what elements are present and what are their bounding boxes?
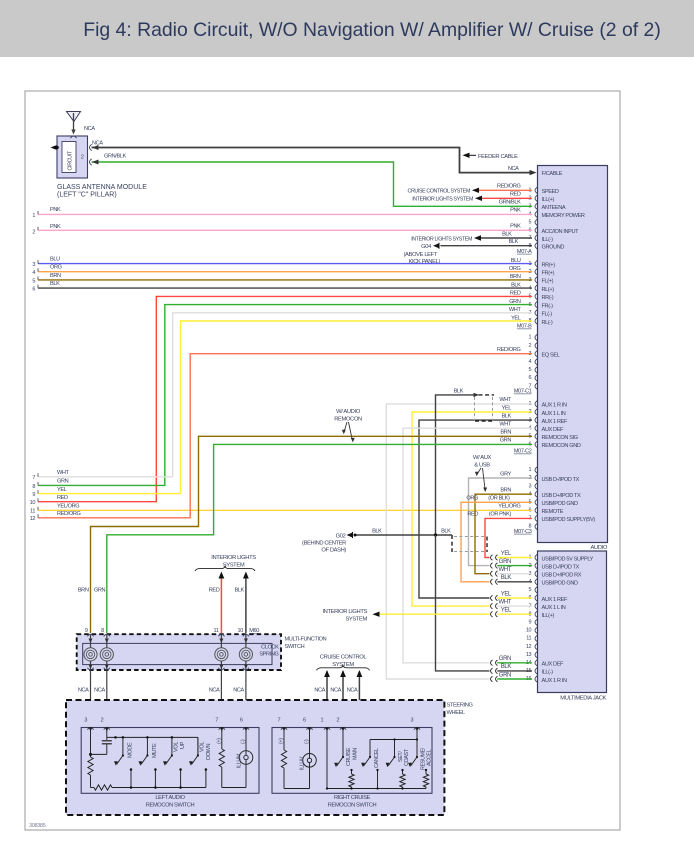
svg-text:6: 6	[240, 718, 243, 724]
junction grn branch	[105, 708, 108, 711]
wire GRN remocon gnd	[107, 444, 532, 633]
svg-text:8: 8	[101, 628, 104, 634]
connector pair pin15	[491, 668, 493, 674]
audio pin 1 RR(+)	[535, 261, 537, 267]
svg-text:REMOCON: REMOCON	[334, 417, 362, 423]
audio pin 4 AUX DEF	[535, 425, 537, 431]
steering wheel dashed box	[66, 700, 444, 815]
svg-text:BLK: BLK	[441, 528, 451, 534]
svg-text:Fig 4: Radio Circuit, W/O Navi: Fig 4: Radio Circuit, W/O Navigation W/ …	[83, 19, 661, 41]
svg-text:4: 4	[32, 270, 35, 276]
svg-text:CIRCUIT: CIRCUIT	[68, 150, 74, 170]
svg-text:WHT: WHT	[498, 599, 511, 605]
audio pin 7 USB/IPOD SUPPLY(5V)	[535, 515, 537, 521]
svg-text:1: 1	[321, 718, 324, 724]
wire YEL/ORG remote	[38, 509, 532, 511]
right box pin entry x=284	[281, 728, 287, 730]
svg-text:G02: G02	[336, 533, 346, 539]
svg-text:STEERING: STEERING	[447, 703, 473, 709]
svg-text:MUTE: MUTE	[152, 743, 158, 758]
svg-text:(OR PNK): (OR PNK)	[489, 512, 512, 518]
svg-text:PNK: PNK	[50, 224, 61, 230]
svg-text:(ABOVE LEFT: (ABOVE LEFT	[403, 252, 437, 258]
svg-text:3: 3	[84, 718, 87, 724]
svg-text:ILL(+): ILL(+)	[542, 613, 555, 619]
switch VOL DOWN	[197, 737, 199, 755]
switch RESUME/ACCEL	[416, 756, 418, 758]
audio pin 4 MEMORY POWER	[535, 211, 537, 217]
svg-text:BLK: BLK	[454, 389, 464, 395]
svg-text:13: 13	[526, 652, 532, 658]
svg-text:WHT: WHT	[57, 470, 70, 476]
svg-text:FEEDER CABLE: FEEDER CABLE	[478, 154, 518, 160]
svg-text:NCA: NCA	[314, 687, 325, 693]
wire BLK usb gnd jack side	[497, 581, 532, 583]
audio pin 1 (nc)	[535, 334, 537, 340]
wire BRN usb d+	[475, 494, 532, 574]
svg-text:BLK: BLK	[372, 528, 382, 534]
multimedia pin 2 USB D-/IPOD TX	[535, 563, 537, 569]
wire RED usb supply	[485, 518, 532, 557]
svg-text:1: 1	[32, 213, 35, 219]
multimedia pin 12 (nc)	[535, 644, 537, 650]
wire BLK shield drain	[436, 395, 475, 535]
left box bottom rail with resistor	[91, 787, 95, 789]
svg-text:GRN: GRN	[499, 656, 511, 662]
svg-text:GRN: GRN	[509, 299, 521, 305]
audio pin 1 SPEED	[535, 187, 537, 193]
svg-text:10: 10	[526, 628, 532, 634]
wire YEL usb supply jack side	[497, 557, 532, 559]
svg-text:VOL: VOL	[174, 742, 180, 752]
svg-text:SPRING: SPRING	[259, 652, 278, 658]
svg-text:GRN: GRN	[500, 438, 512, 444]
illum bulb left	[239, 751, 253, 765]
svg-text:1: 1	[529, 467, 532, 473]
svg-text:ILLUV: ILLUV	[300, 756, 306, 770]
svg-text:10: 10	[30, 500, 36, 506]
clock spring coil at x=245.9	[243, 634, 249, 636]
svg-text:MAIN: MAIN	[353, 748, 359, 760]
wire NCA cruise 3	[359, 672, 417, 724]
wire BLK ill- jack side	[497, 670, 532, 672]
svg-text:BRN: BRN	[500, 488, 511, 494]
connector pair pin8	[491, 611, 493, 617]
svg-text:REMOTE: REMOTE	[542, 509, 564, 515]
svg-text:FL(+): FL(+)	[542, 279, 554, 285]
svg-text:ILLUM: ILLUM	[236, 753, 242, 768]
svg-text:BLK: BLK	[502, 231, 512, 237]
multimedia pin 14 AUX DEF	[535, 660, 537, 666]
svg-text:FL(-): FL(-)	[542, 312, 553, 318]
audio pin 6 REMOCON GND	[535, 441, 537, 447]
left box top rail	[107, 736, 198, 738]
svg-text:NCA: NCA	[78, 687, 89, 693]
connector pair pin2	[491, 563, 493, 569]
svg-text:BLK: BLK	[234, 588, 244, 594]
svg-text:7: 7	[215, 718, 218, 724]
svg-text:ANTEENA: ANTEENA	[542, 205, 566, 211]
svg-text:3: 3	[411, 718, 414, 724]
svg-text:6: 6	[529, 375, 532, 381]
svg-text:M07-A: M07-A	[517, 249, 532, 255]
switch MUTE	[146, 737, 148, 755]
right box pin3 top rail	[416, 731, 418, 757]
svg-text:RED: RED	[510, 291, 521, 297]
svg-text:AUX 1 R IN: AUX 1 R IN	[542, 678, 567, 684]
left box pin entry x=106.8	[104, 728, 110, 730]
audio pin 1 (nc)	[535, 467, 537, 473]
switch MODE	[122, 737, 124, 755]
svg-text:GRN/BLK: GRN/BLK	[104, 154, 127, 160]
svg-text:PNK: PNK	[510, 208, 521, 214]
wire GRN aux def jack side	[497, 662, 532, 664]
wire RED/ORG speed	[477, 189, 532, 191]
audio pin 3 (nc)	[535, 483, 537, 489]
svg-text:USB/IPOD GND: USB/IPOD GND	[542, 581, 578, 587]
wire RED/ORG eq sel	[38, 354, 532, 518]
junction dot g02 drain	[434, 533, 437, 536]
svg-text:M07-B: M07-B	[517, 324, 532, 330]
svg-text:EQ SEL: EQ SEL	[542, 353, 560, 359]
svg-text:3: 3	[32, 262, 35, 268]
svg-text:AUX 1 L IN: AUX 1 L IN	[542, 605, 566, 611]
wire NCA branch to right pin6	[246, 707, 310, 724]
svg-text:MEMORY POWER: MEMORY POWER	[542, 213, 585, 219]
wire NCA to illum-	[245, 670, 247, 723]
svg-text:KICK PANEL): KICK PANEL)	[409, 259, 441, 265]
audio pin 3 FL(+)	[535, 277, 537, 283]
svg-text:NCA: NCA	[92, 141, 103, 147]
connector pair pin16	[491, 676, 493, 682]
left box pin3 column with resistor	[90, 731, 92, 757]
svg-text:MULTI-FUNCTION: MULTI-FUNCTION	[285, 637, 327, 643]
wire BLU speaker 3	[38, 263, 532, 265]
svg-text:CRUISE CONTROL: CRUISE CONTROL	[320, 655, 368, 661]
multimedia jack connector block	[538, 551, 607, 693]
audio pin 6 ACC/ION INPUT	[535, 227, 537, 233]
resume/accel contact resistor	[425, 770, 427, 774]
wire WHT usb d+ jack side	[497, 573, 532, 575]
svg-text:RED: RED	[209, 588, 220, 594]
right box pin entry x=327	[324, 728, 330, 730]
svg-text:LEFT AUDIO: LEFT AUDIO	[155, 795, 185, 801]
svg-text:BLK: BLK	[509, 239, 519, 245]
multimedia pin 8 ILL(+)	[535, 611, 537, 617]
svg-text:2: 2	[101, 718, 104, 724]
svg-text:WHT: WHT	[499, 422, 512, 428]
audio pin 5 (nc)	[535, 367, 537, 373]
svg-text:NCA: NCA	[94, 687, 105, 693]
multimedia pin 5 (nc)	[535, 587, 537, 593]
multimedia pin 3 USB D+/IPOD RX	[535, 571, 537, 577]
arrow into F/CABLE pin	[530, 170, 537, 175]
audio pin 2 (nc)	[535, 343, 537, 349]
wire BLK aux1 ref	[419, 420, 532, 598]
multimedia pin 4 USB/IPOD GND	[535, 579, 537, 585]
wire NCA feeder cable	[92, 148, 529, 173]
svg-text:W/ AUX: W/ AUX	[473, 455, 492, 461]
svg-text:YEL: YEL	[501, 551, 512, 557]
aux cable shield	[474, 397, 476, 421]
svg-text:(OR BLK): (OR BLK)	[488, 496, 510, 502]
switch contact posts left box	[130, 770, 132, 788]
svg-text:MULTIMEDIA JACK: MULTIMEDIA JACK	[560, 696, 606, 702]
wire WHT aux1 R in	[386, 404, 532, 679]
wire BLK g02 ground	[355, 534, 453, 536]
svg-text:10: 10	[238, 628, 244, 634]
svg-text:(LEFT "C" PILLAR): (LEFT "C" PILLAR)	[57, 192, 117, 199]
multimedia pin 6 AUX 1 REF	[535, 595, 537, 601]
svg-text:INTERIOR LIGHTS SYSTEM: INTERIOR LIGHTS SYSTEM	[411, 236, 472, 242]
audio unit connector block M07	[538, 166, 608, 543]
svg-text:USB D+/IPOD RX: USB D+/IPOD RX	[542, 573, 582, 579]
wire PNK memory power	[38, 213, 532, 215]
svg-text:INTERIOR LIGHTS: INTERIOR LIGHTS	[211, 555, 256, 561]
audio pin 5 RR(-)	[535, 293, 537, 299]
right box pin entry x=309.5	[306, 728, 312, 730]
svg-text:NCA: NCA	[508, 166, 519, 172]
svg-text:12: 12	[526, 644, 532, 650]
svg-text:AUX 1 REF: AUX 1 REF	[542, 597, 568, 603]
svg-text:AUX 1 R IN: AUX 1 R IN	[542, 403, 567, 409]
audio pin 8 (nc)	[535, 523, 537, 529]
svg-text:308385: 308385	[29, 823, 46, 829]
connector pair pin14	[491, 660, 493, 666]
svg-text:RED: RED	[467, 512, 478, 518]
audio pin 2 ILL(+)	[535, 195, 537, 201]
svg-text:3: 3	[529, 483, 532, 489]
left box pin entry x=221.8	[219, 728, 225, 730]
wire BLK illum return	[245, 574, 247, 634]
wire RED illum feed	[220, 574, 222, 634]
svg-text:NCA: NCA	[84, 126, 95, 132]
feeder cable annotation	[463, 153, 470, 158]
svg-text:7: 7	[278, 718, 281, 724]
svg-text:BLK: BLK	[501, 575, 512, 581]
multi-function switch dashed box	[77, 634, 281, 670]
right box bottom rail	[327, 788, 426, 790]
svg-text:BRN: BRN	[510, 274, 521, 280]
svg-text:RR(+): RR(+)	[542, 262, 556, 268]
arrow into module pin 2	[92, 160, 99, 165]
svg-text:USB D-/IPOD TX: USB D-/IPOD TX	[542, 477, 580, 483]
svg-text:RED: RED	[57, 495, 68, 501]
svg-text:CRUISE CONTROL SYSTEM: CRUISE CONTROL SYSTEM	[408, 189, 470, 195]
svg-text:YEL: YEL	[57, 487, 67, 493]
multimedia pin 16 AUX 1 R IN	[535, 676, 537, 682]
svg-text:RR(-): RR(-)	[542, 295, 554, 301]
svg-text:ILL(-): ILL(-)	[542, 670, 554, 676]
wire YEL ill+ jack side	[497, 613, 532, 615]
right cruise remocon switch box	[272, 728, 432, 794]
right box pin entry x=417	[414, 728, 420, 730]
svg-text:11: 11	[526, 636, 531, 642]
switch SET/COAST	[393, 756, 395, 758]
wire NCA branch to rail	[107, 709, 116, 737]
wire GRN/BLK antenna	[92, 162, 533, 206]
svg-text:CANCEL: CANCEL	[374, 748, 380, 768]
svg-text:YEL/ORG: YEL/ORG	[57, 504, 79, 510]
multimedia pin 7 AUX 1 L IN	[535, 603, 537, 609]
svg-text:BLK: BLK	[502, 413, 512, 419]
audio pin 8 GROUND	[535, 243, 537, 249]
glass antenna module U1	[57, 136, 88, 178]
svg-text:WHT: WHT	[498, 567, 511, 573]
svg-text:2: 2	[529, 343, 532, 349]
svg-text:11: 11	[213, 628, 218, 634]
svg-text:NCA: NCA	[347, 687, 358, 693]
svg-text:INTERIOR LIGHTS SYSTEM: INTERIOR LIGHTS SYSTEM	[412, 197, 473, 203]
svg-text:9: 9	[85, 628, 88, 634]
svg-text:GRN: GRN	[94, 588, 106, 594]
audio pin 5 REMOCON SIG	[535, 433, 537, 439]
svg-text:YEL: YEL	[501, 591, 512, 597]
diagram frame	[25, 91, 620, 830]
svg-text:USB/IPOD 5V SUPPLY: USB/IPOD 5V SUPPLY	[542, 556, 594, 562]
audio pin 3 ANTEENA	[535, 203, 537, 209]
cancel contact post	[377, 770, 379, 789]
svg-text:PNK: PNK	[510, 224, 521, 230]
svg-text:RED/ORG: RED/ORG	[497, 184, 520, 190]
svg-text:DOWN: DOWN	[206, 743, 212, 760]
illum bulb right	[303, 754, 317, 768]
module left connector	[51, 145, 57, 150]
clock spring coil at x=90.5	[87, 634, 93, 636]
svg-text:AUX 1 REF: AUX 1 REF	[542, 419, 568, 425]
switch CANCEL	[369, 756, 371, 758]
svg-text:BRN: BRN	[78, 588, 89, 594]
svg-text:M07-C3: M07-C3	[514, 529, 532, 535]
svg-text:USB D-/IPOD TX: USB D-/IPOD TX	[542, 564, 580, 570]
svg-text:RED: RED	[510, 192, 521, 198]
arrow into module pin 1	[92, 145, 99, 150]
svg-text:6: 6	[32, 287, 35, 293]
clock spring coil at x=106.8	[104, 634, 110, 636]
left box pin2 column with capacitor	[106, 731, 108, 740]
svg-text:USB/IPOD SUPPLY(5V): USB/IPOD SUPPLY(5V)	[542, 517, 596, 523]
connector pair pin6	[491, 595, 493, 601]
svg-text:8: 8	[32, 484, 35, 490]
svg-text:2: 2	[337, 718, 340, 724]
svg-text:OF DASH): OF DASH)	[321, 547, 346, 553]
svg-text:BLK: BLK	[511, 282, 521, 288]
svg-text:AUX DEF: AUX DEF	[542, 427, 565, 433]
wire GRN speaker return 8	[38, 305, 532, 486]
svg-text:9: 9	[529, 620, 532, 626]
svg-text:ORG: ORG	[466, 496, 478, 502]
switch VOL UP	[171, 737, 173, 755]
svg-text:GRN: GRN	[499, 559, 511, 565]
connector pair pin3	[491, 571, 493, 577]
svg-text:YEL: YEL	[502, 405, 512, 411]
svg-text:PNK: PNK	[50, 207, 61, 213]
svg-text:REMOCON SWITCH: REMOCON SWITCH	[328, 803, 377, 809]
audio pin 2 USB D-/IPOD TX	[535, 475, 537, 481]
audio pin 5 USB/IPOD GND	[535, 499, 537, 505]
svg-text:RESUME/: RESUME/	[420, 747, 426, 770]
clock spring inner box	[83, 643, 272, 664]
connector pair pin7	[491, 603, 493, 609]
wire GRN aux1 R in jack side	[497, 678, 532, 680]
svg-text:ORG: ORG	[509, 266, 521, 272]
audio pin 2 FR(+)	[535, 269, 537, 275]
svg-text:RL(-): RL(-)	[542, 320, 553, 326]
svg-text:CLOCK: CLOCK	[261, 645, 279, 651]
svg-text:M07-C1: M07-C1	[514, 389, 532, 395]
svg-text:REMOCON SWITCH: REMOCON SWITCH	[146, 803, 195, 809]
svg-text:W/ AUDIO: W/ AUDIO	[336, 409, 361, 415]
svg-text:WHT: WHT	[509, 307, 522, 313]
title bar	[0, 0, 694, 57]
svg-text:RED/ORG: RED/ORG	[57, 511, 80, 517]
svg-text:WHT: WHT	[499, 397, 512, 403]
wire ORG speaker 4	[38, 271, 532, 273]
svg-text:11: 11	[30, 509, 35, 515]
connector pair pin4	[491, 579, 493, 585]
wire BLK ground	[441, 245, 533, 247]
usb cable shield	[451, 535, 453, 552]
svg-text:USB/IPOD GND: USB/IPOD GND	[542, 501, 578, 507]
right box pin1 ground column	[326, 731, 328, 789]
svg-text:REMOCON SIG: REMOCON SIG	[542, 435, 578, 441]
multimedia pin 15 ILL(-)	[535, 668, 537, 674]
ground G04	[433, 243, 439, 248]
svg-text:NCA: NCA	[330, 687, 341, 693]
audio pin 4 USB D+/IPOD TX	[535, 491, 537, 497]
wire NCA to left pin2	[106, 670, 108, 723]
svg-text:GRN/BLK: GRN/BLK	[499, 200, 522, 206]
wire NCA to illum+	[220, 670, 222, 723]
audio pin 3 AUX 1 REF	[535, 417, 537, 423]
svg-text:7: 7	[32, 475, 35, 481]
svg-text:UP: UP	[180, 741, 186, 749]
svg-text:NCA: NCA	[233, 687, 244, 693]
svg-text:BLU: BLU	[511, 258, 521, 264]
wire GRN usb d- jack side	[497, 565, 532, 567]
multimedia pin 10 (nc)	[535, 627, 537, 633]
ground G02	[347, 533, 353, 538]
wire YEL speaker return 9	[38, 321, 532, 494]
wire RED ill+	[480, 197, 532, 199]
svg-text:G04: G04	[421, 244, 432, 250]
multimedia pin 13 (nc)	[535, 652, 537, 658]
svg-text:12: 12	[30, 516, 36, 522]
wire WHT speaker return 7	[38, 313, 532, 477]
audio pin 6 FR(-)	[535, 302, 537, 308]
audio pin 1 AUX 1 R IN	[535, 401, 537, 407]
wire BLK ill- multimedia	[436, 535, 490, 671]
audio pin 2 AUX 1 L IN	[535, 409, 537, 415]
wire BLK ill-	[481, 237, 533, 239]
svg-text:6: 6	[303, 718, 306, 724]
audio pin 4 RL(+)	[535, 285, 537, 291]
svg-text:F/CABLE: F/CABLE	[542, 171, 563, 177]
audio pin 7 FL(-)	[535, 310, 537, 316]
svg-text:GROUND: GROUND	[542, 245, 565, 251]
junction illum- branch	[244, 705, 247, 708]
antenna symbol	[67, 112, 81, 122]
wire RED speaker return 10	[38, 296, 532, 501]
wire GRY usb d-	[469, 478, 533, 566]
svg-text:USB D+/IPOD TX: USB D+/IPOD TX	[542, 493, 582, 499]
switch CRUISE MAIN	[342, 731, 344, 757]
wire BRN speaker 5	[38, 279, 532, 281]
svg-text:2: 2	[32, 229, 35, 235]
audio pin 5 (nc)	[535, 219, 537, 225]
audio pin 7 ILL(-)	[535, 235, 537, 241]
cruise main contact resistor	[351, 770, 353, 774]
